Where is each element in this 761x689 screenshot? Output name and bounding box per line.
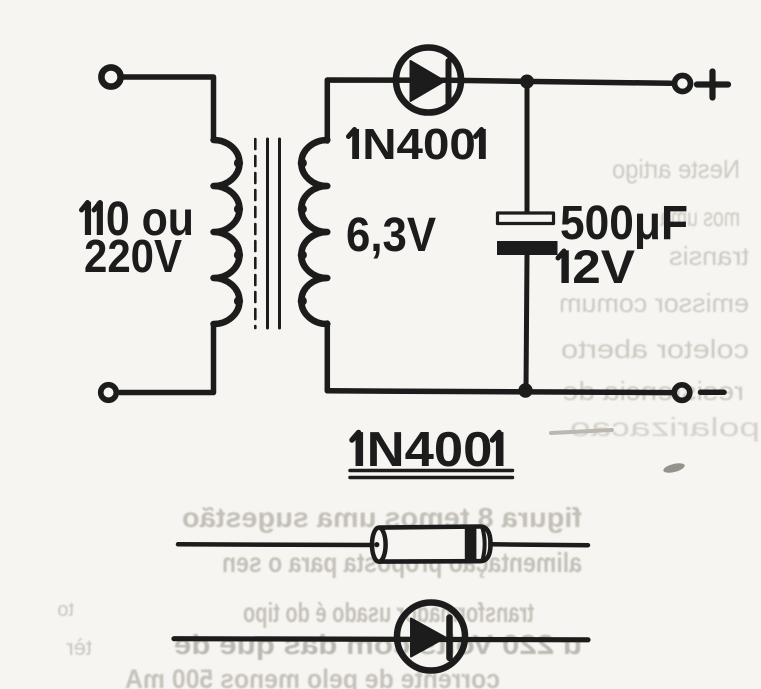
wire: negative rail — [327, 391, 671, 393]
label "500µF" — [560, 197, 688, 250]
wire: capacitor to negative rail — [526, 255, 527, 391]
svg-text:Neste artigo: Neste artigo — [612, 154, 740, 184]
svg-text:u 220 Volts com das que de: u 220 Volts com das que de — [174, 629, 582, 660]
svg-text:transformador usado é do tipo: transformador usado é do tipo — [243, 597, 534, 628]
transformer secondary winding — [298, 140, 328, 324]
terminal: − output — [674, 385, 690, 401]
title "1N4001" (underlined) — [352, 423, 507, 477]
svg-text:IN400I: IN400I — [349, 120, 489, 169]
diode package drawing (1N4001 body, cathode band) — [178, 527, 588, 562]
wire: transformer primary bottom to AC input bottom — [120, 324, 214, 393]
terminal: AC input bottom — [101, 385, 117, 401]
transformer core — [255, 139, 279, 328]
capacitor C1 500µF 12V (polarized) — [497, 213, 558, 255]
diode symbol drawing (1N4001 schematic symbol) — [174, 603, 588, 671]
node: negative rail junction — [518, 383, 532, 397]
terminal: + output — [675, 76, 691, 92]
transformer primary winding — [214, 140, 244, 324]
svg-text:220V: 220V — [84, 230, 182, 282]
polarity mark − — [701, 390, 725, 396]
polarity mark + — [697, 72, 728, 98]
label "6,3V" — [346, 209, 436, 262]
label "1N4001" (rectifier designator) — [349, 120, 490, 169]
wire: junction to capacitor — [525, 82, 530, 215]
label "110 ou 220V" — [82, 193, 195, 282]
svg-text:tèr: tèr — [66, 635, 92, 660]
wire: secondary top lead and positive rail — [327, 80, 671, 141]
svg-text:I2V: I2V — [558, 240, 636, 293]
label "12V" — [558, 240, 636, 293]
wire: AC input top to transformer primary — [121, 77, 214, 140]
terminal: AC input top — [101, 67, 120, 86]
diode D1 1N4001 (rectifier) — [396, 48, 461, 113]
svg-text:6,3V: 6,3V — [346, 209, 436, 262]
svg-text:to: to — [57, 599, 74, 621]
node: rectifier output junction — [520, 75, 534, 89]
wire: secondary bottom lead — [325, 323, 331, 390]
svg-text:coletor aberto: coletor aberto — [561, 334, 749, 364]
svg-text:polarizacao: polarizacao — [570, 412, 760, 442]
